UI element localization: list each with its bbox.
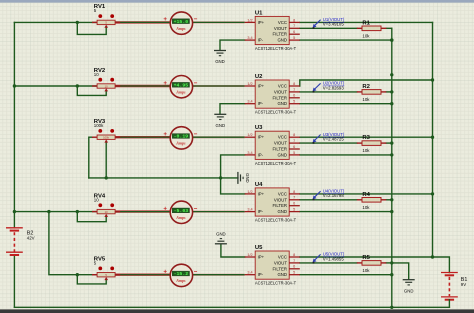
svg-text:6: 6 xyxy=(293,265,295,269)
svg-text:3,4: 3,4 xyxy=(247,208,252,212)
svg-text:8: 8 xyxy=(293,133,295,137)
potentiometer RV4 body xyxy=(92,209,120,214)
ground terminal rows3-4 shared net xyxy=(238,172,250,184)
wire U1 IP- to ground xyxy=(220,40,245,50)
svg-text:VCC: VCC xyxy=(278,255,287,260)
svg-text:+: + xyxy=(163,269,167,276)
svg-text:VIOUT: VIOUT xyxy=(274,89,288,94)
svg-text:+: + xyxy=(163,205,167,212)
resistor R4 body xyxy=(357,198,387,203)
wire shared ground net horizontal (rows 3-4) xyxy=(89,177,238,179)
wire RV4 to ammeter row4 xyxy=(115,210,170,212)
junction VCC rail row4 xyxy=(431,192,434,195)
wire U5 VCC to VCC rail corner to B1 xyxy=(300,257,450,273)
ground terminal row1 (U1 IP-) xyxy=(214,51,226,65)
junction RV4 loop on row wire xyxy=(76,210,79,213)
U2 pin names xyxy=(258,84,288,107)
svg-text:VIOUT: VIOUT xyxy=(274,197,288,202)
svg-text:FILTER: FILTER xyxy=(273,32,287,37)
svg-text:3,4: 3,4 xyxy=(247,100,252,104)
svg-text:8: 8 xyxy=(293,82,295,86)
wire R3 to GND rail xyxy=(386,142,392,144)
svg-text:5: 5 xyxy=(293,151,295,155)
svg-text:1/2: 1/2 xyxy=(247,253,252,257)
U4 pin names xyxy=(258,191,288,214)
op-amp U1 body (ACS712 sensor) xyxy=(255,16,289,44)
wire GND rail vertical xyxy=(391,28,393,307)
wire R1 to GND rail top corner xyxy=(386,27,392,29)
junction GND rail R3 xyxy=(390,141,393,144)
svg-text:IP-: IP- xyxy=(258,209,264,214)
svg-text:FILTER: FILTER xyxy=(273,95,287,100)
wire R5 node to ground terminal xyxy=(392,263,409,279)
potentiometer RV4 wiper arrow xyxy=(104,214,108,217)
U3 pin numbers xyxy=(247,133,295,155)
op-amp U3 body (ACS712 sensor) xyxy=(255,131,289,159)
svg-text:V=2.16798: V=2.16798 xyxy=(323,193,345,198)
junction VCC rail row2 xyxy=(431,78,434,81)
ammeter row3 display xyxy=(172,134,189,140)
svg-text:1/2: 1/2 xyxy=(247,133,252,137)
voltage probe U5(VIOUT) arrow xyxy=(313,254,321,263)
junction ground net T xyxy=(219,176,222,179)
wire B1 negative to bottom rail xyxy=(448,300,450,308)
wire row5 branch from row4 down to RV5 xyxy=(49,212,98,275)
svg-text:U2: U2 xyxy=(255,74,263,80)
battery B1 xyxy=(441,273,458,300)
svg-text:R3: R3 xyxy=(362,135,370,141)
svg-text:+: + xyxy=(163,80,167,87)
junction RV2 loop on row wire xyxy=(76,84,79,87)
junction VCC rail row3 xyxy=(431,136,434,139)
svg-text:IP-: IP- xyxy=(258,272,264,277)
svg-text:7: 7 xyxy=(293,196,295,200)
voltage probe U2(VIOUT) arrow xyxy=(313,83,321,92)
ammeter row1 display xyxy=(172,19,189,25)
junction VCC rail row5 xyxy=(431,255,434,258)
junction row4-row5 branch xyxy=(47,210,50,213)
potentiometer RV5 body xyxy=(92,273,120,278)
svg-text:−: − xyxy=(194,131,198,138)
wire U1 VIOUT to R1 xyxy=(300,27,357,29)
junction GND rail U3 GND xyxy=(390,153,393,156)
svg-text:5: 5 xyxy=(293,36,295,40)
battery B2 xyxy=(6,228,23,255)
wire U2 IP- to ground xyxy=(220,104,245,114)
svg-text:VIOUT: VIOUT xyxy=(274,26,288,31)
wire row1 bus to RV1 xyxy=(14,21,97,23)
svg-text:7: 7 xyxy=(293,24,295,28)
svg-text:7: 7 xyxy=(293,88,295,92)
wire RV3 to ammeter row3 xyxy=(115,136,170,138)
top window strip xyxy=(0,0,474,3)
resistor R1 body xyxy=(357,26,387,31)
wire RV3 left terminal down to shared ground net xyxy=(89,137,93,178)
U5 pin names xyxy=(258,255,288,278)
svg-text:−: − xyxy=(194,80,198,87)
svg-text:1/2: 1/2 xyxy=(247,18,252,22)
wire RV1 wiper loop xyxy=(77,22,106,34)
wire U2 GND pin to GND rail xyxy=(300,103,392,105)
wire R4 to GND rail xyxy=(386,199,392,201)
potentiometer RV3 wiper arrow xyxy=(104,139,108,142)
op-amp U5 body (ACS712 sensor) xyxy=(255,251,289,279)
svg-text:VIOUT: VIOUT xyxy=(274,141,288,146)
junction GND rail U5 GND xyxy=(390,273,393,276)
svg-text:IP+: IP+ xyxy=(258,255,265,260)
svg-text:6: 6 xyxy=(293,145,295,149)
wire RV2 wiper loop xyxy=(77,86,106,95)
potentiometer RV3 body xyxy=(92,135,120,140)
potentiometer RV2 wiper arrow xyxy=(104,88,108,91)
svg-text:ACS712ELCTR-30A-T: ACS712ELCTR-30A-T xyxy=(255,46,297,51)
resistor R3 body xyxy=(357,141,387,146)
svg-text:IP-: IP- xyxy=(258,101,264,106)
svg-text:R4: R4 xyxy=(362,192,370,198)
U5 pin stubs xyxy=(245,257,300,275)
wire U1 GND pin to GND rail xyxy=(300,39,392,41)
wire U4 VIOUT to R4 xyxy=(300,199,357,201)
U1 pin numbers xyxy=(247,18,295,40)
svg-text:Amps: Amps xyxy=(175,26,186,31)
svg-text:10: 10 xyxy=(105,84,108,88)
junction GND rail extra node xyxy=(390,73,393,76)
U4 pin stubs xyxy=(245,194,300,212)
svg-text:8: 8 xyxy=(293,18,295,22)
junction GND rail R4 xyxy=(390,198,393,201)
potentiometer RV3 terminal dots xyxy=(98,129,114,133)
svg-text:5: 5 xyxy=(293,100,295,104)
wire ground terminal to U5 IP+ xyxy=(221,245,245,257)
resistor R5 body xyxy=(357,261,387,266)
voltage probe U4(VIOUT) arrow xyxy=(313,191,321,200)
svg-text:100k: 100k xyxy=(103,136,109,140)
op-amp U2 body (ACS712 sensor) xyxy=(255,80,289,108)
junction GND rail U1 GND xyxy=(390,38,393,41)
wire U3 IP- to shared ground net xyxy=(221,155,245,178)
svg-text:GND: GND xyxy=(277,152,287,157)
wire left supply bus vertical (B2 positive rail) xyxy=(13,22,15,227)
potentiometer RV1 terminal dots xyxy=(98,14,114,18)
wire U3 GND pin to GND rail xyxy=(300,154,392,156)
U2 pin stubs xyxy=(245,86,300,104)
svg-text:FILTER: FILTER xyxy=(273,266,287,271)
wire left bus below battery B2 to bottom rail xyxy=(13,255,15,307)
ammeter row5 body xyxy=(170,264,192,286)
svg-text:−: − xyxy=(194,205,198,212)
svg-text:1/2: 1/2 xyxy=(247,190,252,194)
svg-text:3,4: 3,4 xyxy=(247,271,252,275)
junction GND rail R1 row xyxy=(390,38,393,41)
wire bottom return rail B2 to B1 xyxy=(14,306,449,308)
svg-text:8: 8 xyxy=(293,253,295,257)
wire RV3 wiper down to shared ground net xyxy=(105,142,107,178)
svg-text:7: 7 xyxy=(293,259,295,263)
svg-text:IP+: IP+ xyxy=(258,191,265,196)
svg-text:5: 5 xyxy=(293,271,295,275)
junction RV5 loop on row wire xyxy=(76,273,79,276)
wire row2 bus to RV2 xyxy=(14,85,97,87)
U3 pin stubs xyxy=(245,137,300,155)
svg-text:VCC: VCC xyxy=(278,135,287,140)
svg-text:GND: GND xyxy=(216,123,226,128)
svg-text:10k: 10k xyxy=(362,148,370,153)
svg-text:V=1.49855: V=1.49855 xyxy=(323,256,345,261)
svg-text:ACS712ELCTR-30A-T: ACS712ELCTR-30A-T xyxy=(255,161,297,166)
svg-text:9V: 9V xyxy=(461,282,466,287)
ammeter row1 body xyxy=(170,12,192,34)
resistor R2 body xyxy=(357,90,387,95)
svg-text:3,4: 3,4 xyxy=(247,36,252,40)
svg-text:ACS712ELCTR-30A-T: ACS712ELCTR-30A-T xyxy=(255,110,297,115)
svg-text:10k: 10k xyxy=(362,33,370,38)
U1 pin stubs xyxy=(245,22,300,40)
svg-text:GND: GND xyxy=(216,231,226,236)
wire U2 VCC jog to VCC rail xyxy=(300,80,433,86)
wire R5 to GND rail xyxy=(386,262,392,264)
wire RV1 to ammeter row1 xyxy=(115,21,170,23)
U2 pin numbers xyxy=(247,82,295,104)
wire RV2 to ammeter row2 xyxy=(115,85,170,87)
U5 pin numbers xyxy=(247,253,295,275)
svg-text:+: + xyxy=(163,131,167,138)
ammeter row3 body xyxy=(170,127,192,149)
potentiometer RV2 body xyxy=(92,84,120,89)
svg-text:VIOUT: VIOUT xyxy=(274,260,288,265)
svg-text:8: 8 xyxy=(293,190,295,194)
junction GND rail bottom xyxy=(390,306,393,309)
svg-text:VCC: VCC xyxy=(278,20,287,25)
svg-text:GND: GND xyxy=(245,173,250,183)
svg-text:Amps: Amps xyxy=(175,215,186,220)
wire RV4 wiper loop xyxy=(77,212,106,222)
svg-text:+4.95: +4.95 xyxy=(174,84,189,89)
wire U4 VCC to VCC rail xyxy=(300,193,433,195)
svg-text:VCC: VCC xyxy=(278,191,287,196)
wire U2 VIOUT to R2 xyxy=(300,91,357,93)
svg-text:IP+: IP+ xyxy=(258,135,265,140)
svg-text:V=3.49105: V=3.49105 xyxy=(323,22,345,27)
U1 pin names xyxy=(258,20,288,43)
wire U3 VCC to VCC rail xyxy=(300,136,433,138)
svg-text:U5: U5 xyxy=(255,245,263,251)
svg-text:-15.2: -15.2 xyxy=(174,272,189,277)
wire ammeter to U1 IP pin row1 xyxy=(192,21,245,23)
junction GND rail U4 GND xyxy=(390,210,393,213)
svg-text:Amps: Amps xyxy=(175,90,186,95)
potentiometer RV1 body xyxy=(92,20,120,25)
svg-text:U3: U3 xyxy=(255,125,263,131)
svg-text:IP+: IP+ xyxy=(258,84,265,89)
svg-text:GND: GND xyxy=(404,288,414,293)
wire U3 VIOUT to R3 xyxy=(300,142,357,144)
svg-text:R5: R5 xyxy=(362,255,370,261)
ammeter row4 display xyxy=(172,208,189,214)
U4 pin numbers xyxy=(247,190,295,212)
svg-text:+15.0: +15.0 xyxy=(174,20,189,25)
svg-text:GND: GND xyxy=(277,38,287,43)
svg-text:ACS712ELCTR-30A-T: ACS712ELCTR-30A-T xyxy=(255,218,297,223)
ammeter row5 display xyxy=(172,271,189,277)
svg-text:5: 5 xyxy=(293,208,295,212)
svg-text:10k: 10k xyxy=(362,268,370,273)
svg-text:10k: 10k xyxy=(362,205,370,210)
svg-text:-0.19: -0.19 xyxy=(174,135,189,140)
wire row4 bus to RV4 xyxy=(14,211,97,213)
wire ammeter to U3 IP pin row3 xyxy=(192,136,245,138)
svg-text:GND: GND xyxy=(277,101,287,106)
junction bus-row4 xyxy=(13,210,16,213)
svg-text:10k: 10k xyxy=(362,97,370,102)
svg-text:6: 6 xyxy=(293,94,295,98)
wire U5 GND pin to GND rail xyxy=(300,274,392,276)
wire shared ground net down to U4 IP+ xyxy=(221,178,245,194)
svg-text:IP+: IP+ xyxy=(258,20,265,25)
junction RV3 wiper-ground net xyxy=(105,176,108,179)
potentiometer RV4 terminal dots xyxy=(98,203,114,207)
voltage probe U3(VIOUT) arrow xyxy=(313,135,321,144)
svg-text:FILTER: FILTER xyxy=(273,203,287,208)
bottom window strip xyxy=(0,309,474,313)
potentiometer RV5 terminal dots xyxy=(98,267,114,271)
wire R2 to GND rail xyxy=(386,91,392,93)
svg-text:42V: 42V xyxy=(27,236,35,241)
junction GND rail R5 xyxy=(390,261,393,264)
svg-text:7: 7 xyxy=(293,139,295,143)
svg-text:3,4: 3,4 xyxy=(247,151,252,155)
svg-text:6: 6 xyxy=(293,202,295,206)
wire RV5 to ammeter row5 xyxy=(115,274,170,276)
svg-text:GND: GND xyxy=(277,272,287,277)
svg-text:ACS712ELCTR-30A-T: ACS712ELCTR-30A-T xyxy=(255,281,297,286)
svg-text:10: 10 xyxy=(105,210,108,214)
svg-text:1/2: 1/2 xyxy=(247,82,252,86)
svg-text:U1: U1 xyxy=(255,10,263,16)
wire U5 VIOUT to R5 xyxy=(300,262,357,264)
wire ammeter to U2 IP pin row2 xyxy=(192,85,245,87)
svg-text:R2: R2 xyxy=(362,84,370,90)
ground terminal row2 (U2 IP-) xyxy=(214,114,226,128)
svg-text:Amps: Amps xyxy=(175,278,186,283)
wire U4 GND pin to GND rail xyxy=(300,211,392,213)
svg-text:10: 10 xyxy=(94,197,99,202)
ground terminal row5 (U5 IP+) xyxy=(215,231,227,243)
svg-text:100k: 100k xyxy=(94,123,104,128)
potentiometer RV5 wiper arrow xyxy=(104,277,108,280)
wire ammeter to U5 IP pin row5 xyxy=(192,274,245,276)
svg-text:+: + xyxy=(163,16,167,23)
U3 pin names xyxy=(258,135,288,158)
svg-text:IP-: IP- xyxy=(258,152,264,157)
svg-text:−: − xyxy=(194,269,198,276)
svg-text:Amps: Amps xyxy=(175,141,186,146)
potentiometer RV1 wiper arrow xyxy=(104,25,108,28)
svg-text:V=2.82693: V=2.82693 xyxy=(323,85,345,90)
junction GND rail R2 xyxy=(390,90,393,93)
svg-text:GND: GND xyxy=(277,209,287,214)
svg-text:R1: R1 xyxy=(362,20,370,26)
junction GND rail U2 GND xyxy=(390,102,393,105)
ammeter row2 display xyxy=(172,82,189,88)
op-amp U4 body (ACS712 sensor) xyxy=(255,188,289,216)
svg-text:FILTER: FILTER xyxy=(273,147,287,152)
ammeter row4 body xyxy=(170,201,192,223)
wire U1 VCC to VCC rail (top) xyxy=(300,21,433,23)
svg-text:VCC: VCC xyxy=(278,84,287,89)
voltage probe U1(VIOUT) arrow xyxy=(313,20,321,29)
ammeter row2 body xyxy=(170,76,192,98)
wire ammeter to U4 IP pin row4 xyxy=(192,211,245,213)
wire VCC rail vertical xyxy=(432,22,434,257)
svg-text:V=2.48725: V=2.48725 xyxy=(323,137,345,142)
junction bus-row2 xyxy=(13,84,16,87)
potentiometer RV2 terminal dots xyxy=(98,78,114,82)
svg-text:−: − xyxy=(194,16,198,23)
svg-text:IP-: IP- xyxy=(258,38,264,43)
svg-text:GND: GND xyxy=(215,59,225,64)
svg-text:U4: U4 xyxy=(255,182,263,188)
svg-text:10: 10 xyxy=(94,72,99,77)
wire RV5 wiper loop xyxy=(77,275,106,284)
svg-text:-5.03: -5.03 xyxy=(174,209,189,214)
ground terminal row5 resistor node xyxy=(403,280,415,294)
svg-text:6: 6 xyxy=(293,30,295,34)
junction RV1 loop on row wire xyxy=(76,21,79,24)
